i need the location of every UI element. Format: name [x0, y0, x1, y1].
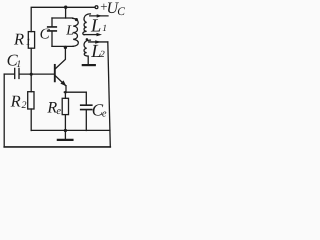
ground bar under L2 [83, 64, 95, 66]
svg-text:L: L [90, 16, 101, 36]
arrow on L2 top lead [95, 40, 101, 43]
transistor V emitter with arrow [55, 76, 66, 92]
node: rail junction dot [64, 129, 67, 132]
label +Uc [99, 0, 125, 18]
resistor R1 box [28, 32, 34, 49]
wire: emitter node wire to Ce [64, 91, 86, 93]
inductor L1 winding [83, 14, 91, 35]
capacitor C (tank) plates [48, 27, 57, 31]
wire: bottom outer feedback wire [4, 146, 110, 148]
transistor V base bar [54, 65, 56, 81]
wire: collector [55, 47, 65, 69]
label R1 [13, 29, 31, 48]
svg-text:C: C [117, 6, 125, 18]
node: L polarity dot [75, 18, 78, 21]
wire: left outer feedback wire [3, 74, 5, 147]
wire: tank top side [52, 17, 73, 19]
svg-text:2: 2 [100, 50, 105, 60]
svg-text:R: R [10, 92, 21, 111]
wire: L2 drop wire to bottom feedback corner [108, 42, 111, 147]
resistor R2 box [28, 92, 34, 109]
label R2 [10, 92, 27, 111]
terminal +Uc circle [95, 6, 98, 9]
svg-text:R: R [13, 29, 24, 48]
capacitor C1 plates [15, 68, 19, 78]
ground stub [64, 131, 66, 140]
node: L2 polarity dot [86, 38, 89, 41]
wire: L2 bottom stub [87, 56, 89, 64]
label L2 [90, 42, 105, 62]
wire: tank bottom side [52, 45, 73, 47]
wire: rail to tank top [65, 7, 67, 18]
ground bar [58, 139, 73, 141]
label Re [46, 100, 61, 118]
label L1 [90, 16, 107, 36]
svg-text:1: 1 [26, 38, 31, 48]
svg-text:1: 1 [16, 59, 21, 70]
capacitor Ce leads [85, 92, 87, 130]
arrow on L1 bottom lead [97, 33, 103, 36]
inductor L (tank winding) [73, 18, 79, 46]
wire: base wire C1 to base bar [20, 73, 55, 75]
node: tank stem junction dot on rail [64, 6, 67, 9]
inductor L2 winding [84, 40, 90, 56]
wire: +Uc top rail with R1 column corner [31, 7, 95, 31]
svg-text:L: L [65, 24, 74, 39]
wire: input segment from left rail to C1 [4, 73, 14, 75]
resistor R2 lead top [30, 74, 32, 92]
wire: L1 bottom lead (output arrow) [84, 34, 97, 36]
node: base junction dot [30, 73, 33, 76]
svg-text:2: 2 [22, 100, 27, 111]
node: collector junction dot on tank bottom [64, 46, 67, 49]
resistor Re box [62, 98, 68, 114]
arrow on L1 top lead [97, 14, 103, 17]
wire: L2 top lead to right vertical [89, 41, 108, 43]
svg-text:1: 1 [102, 24, 107, 34]
wire: ground rail [31, 129, 110, 131]
resistor R2 lead bottom [30, 109, 32, 131]
node: emitter-Re junction dot [64, 91, 67, 94]
capacitor Ce plates [81, 105, 92, 109]
capacitor C (tank) leads [51, 18, 53, 46]
resistor R1 leads [30, 48, 32, 74]
svg-text:C: C [40, 26, 51, 42]
svg-text:e: e [56, 106, 61, 117]
label Ce [92, 101, 107, 120]
resistor Re leads [64, 92, 66, 130]
wire: L1 top lead [90, 15, 108, 17]
label C1 [7, 50, 22, 70]
svg-text:e: e [102, 108, 107, 119]
